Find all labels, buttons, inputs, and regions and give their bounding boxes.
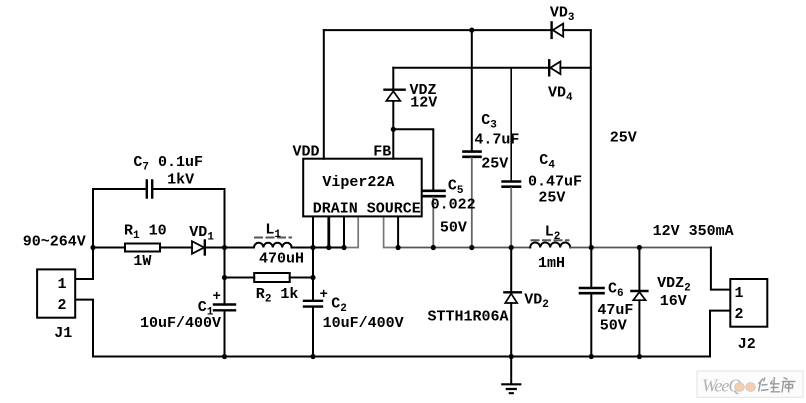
- resistor R1: [125, 244, 160, 252]
- wire VD3 to 25V line: [563, 29, 591, 31]
- svg-text:470uH: 470uH: [259, 251, 304, 268]
- svg-text:VDD: VDD: [293, 144, 320, 161]
- svg-text:2: 2: [735, 306, 744, 323]
- zener VDZ: [392, 68, 394, 130]
- svg-text:47uF: 47uF: [597, 302, 633, 319]
- wire VD4 to 25V line: [560, 67, 590, 69]
- svg-text:0.022: 0.022: [431, 197, 476, 214]
- L2 core dashes: [532, 239, 569, 241]
- capacitor C1: [224, 248, 226, 357]
- svg-text:25V: 25V: [610, 130, 637, 147]
- wire C7 to node A: [154, 189, 225, 248]
- svg-text:FB: FB: [373, 144, 391, 161]
- svg-text:+: +: [213, 289, 221, 305]
- svg-text:25V: 25V: [481, 155, 508, 172]
- wire 25V vertical: [590, 30, 592, 247]
- wire source rail to L2: [398, 247, 530, 249]
- wire J2 pin2 to bottom rail: [710, 311, 730, 357]
- svg-text:R1 10: R1 10: [124, 223, 167, 243]
- svg-text:1kV: 1kV: [167, 172, 194, 189]
- wire FB node to C5: [393, 129, 433, 190]
- wire VDD pin up: [323, 30, 325, 159]
- wire L1 to drain node: [292, 247, 344, 249]
- capacitor C2: [312, 307, 314, 357]
- node C6 bottom: [589, 354, 594, 359]
- svg-text:10uF/400V: 10uF/400V: [140, 315, 221, 332]
- svg-text:R2 1k: R2 1k: [256, 286, 299, 306]
- svg-text:16V: 16V: [660, 293, 687, 310]
- svg-text:12V 350mA: 12V 350mA: [653, 223, 734, 240]
- svg-text:50V: 50V: [600, 318, 627, 335]
- wire R2 right: [290, 277, 313, 279]
- svg-text:Viper22A: Viper22A: [322, 174, 394, 191]
- diode VD1: [192, 241, 204, 254]
- svg-text:12V: 12V: [410, 94, 437, 111]
- wire top VDD rail: [324, 29, 551, 31]
- capacitor C3: [471, 30, 473, 151]
- wire FB pin: [392, 129, 394, 158]
- wire node A to L1: [225, 247, 255, 249]
- resistor R2: [254, 273, 290, 282]
- wire bottom ground rail: [93, 356, 710, 358]
- diode VD3: [550, 22, 552, 38]
- svg-text:50V: 50V: [440, 220, 467, 237]
- wire output corner to J2 pin1: [711, 248, 730, 290]
- inductor L1: [254, 243, 292, 248]
- diode VD4: [548, 60, 550, 75]
- capacitor C5: [423, 191, 445, 196]
- node C3 bottom: [469, 245, 474, 250]
- connector J1 box: [37, 269, 75, 317]
- node FB: [391, 127, 396, 132]
- watermark WeeQoo: [697, 371, 803, 397]
- svg-text:J1: J1: [54, 325, 72, 342]
- node C1/R2: [222, 275, 227, 280]
- node input: [90, 245, 95, 250]
- wire main input rail: [93, 247, 125, 249]
- node A VD1/L1/C7/C1: [222, 245, 227, 250]
- wire input left vertical: [75, 189, 93, 279]
- capacitor C7: [147, 181, 152, 198]
- node C1 bottom: [222, 354, 227, 359]
- node C4/VD2: [509, 245, 514, 250]
- wire C7 bypass top-left horizontal: [93, 188, 145, 190]
- node R2/C2: [310, 275, 315, 280]
- svg-text:+: +: [320, 287, 328, 303]
- svg-text:25V: 25V: [538, 189, 565, 206]
- node drain pin2: [326, 245, 331, 250]
- wire FB feedback top: [393, 67, 548, 69]
- svg-text:90~264V: 90~264V: [23, 234, 86, 251]
- svg-text:J2: J2: [738, 336, 756, 353]
- svg-text:1W: 1W: [133, 253, 151, 270]
- capacitor C6: [590, 248, 592, 357]
- ground: [510, 357, 512, 384]
- node top C3: [469, 28, 474, 33]
- node C5 bottom: [431, 245, 436, 250]
- connector J2 box: [730, 279, 767, 327]
- node 25V/C6: [589, 245, 594, 250]
- zener VDZ2: [638, 248, 640, 357]
- wire J1 pin2 to bottom rail: [75, 300, 93, 357]
- svg-text:10uF/400V: 10uF/400V: [323, 315, 404, 332]
- wire VD1 to node A: [206, 247, 225, 249]
- svg-text:DRAIN SOURCE: DRAIN SOURCE: [313, 200, 421, 217]
- node drain pin1: [310, 245, 315, 250]
- wire drain pin 2: [327, 217, 330, 247]
- svg-text:1: 1: [735, 285, 744, 302]
- wire drain pin 3: [343, 217, 345, 247]
- svg-text:1: 1: [58, 276, 67, 293]
- node VDZ2 top: [637, 245, 642, 250]
- node drain pin3: [341, 245, 346, 250]
- wire R1 to VD1: [160, 247, 192, 249]
- IC U1 Viper22A box: [303, 159, 422, 217]
- wire drain pin 1 / C2 vertical: [312, 217, 314, 301]
- wire 12V output rail: [570, 247, 711, 249]
- svg-text:STTH1R06A: STTH1R06A: [428, 309, 509, 326]
- node VD2 bottom: [509, 354, 514, 359]
- svg-text:0.47uF: 0.47uF: [528, 173, 582, 190]
- diode VD2: [510, 248, 512, 292]
- wire source pin 1 gray: [384, 217, 399, 247]
- node source pin2: [396, 245, 401, 250]
- svg-text:2: 2: [58, 297, 67, 314]
- L1 core dashes: [255, 237, 291, 239]
- wire source pin 2: [397, 217, 399, 247]
- svg-text:4.7uF: 4.7uF: [474, 132, 519, 149]
- capacitor C4: [510, 68, 512, 181]
- inductor L2: [530, 243, 570, 248]
- node C2 bottom: [310, 354, 315, 359]
- wire drain rail stub gray: [344, 217, 358, 247]
- wire R2 left: [225, 277, 255, 279]
- node VDZ2 bottom: [637, 354, 642, 359]
- svg-text:1mH: 1mH: [538, 255, 565, 272]
